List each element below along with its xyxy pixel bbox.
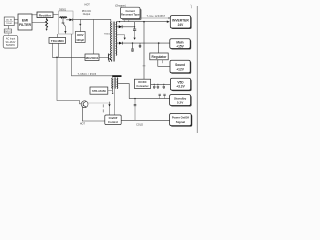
diode D6502 (boost)	[69, 19, 72, 22]
wire PFC bus	[73, 19, 111, 21]
capacitor C6 on standby rail	[159, 94, 161, 98]
svg-text:INPUT: INPUT	[5, 31, 12, 33]
wire DC/DC to V5D box	[151, 83, 171, 85]
wire TDA4863 top stub	[57, 34, 59, 38]
block EMI FILTER	[18, 14, 32, 30]
secondary winding	[115, 22, 118, 56]
wire standby rail to standby box	[129, 98, 170, 100]
svg-text:T-6503 / 6505: T-6503 / 6505	[78, 74, 97, 76]
wire Q6501 collector right	[88, 102, 111, 104]
fuse F6501	[46, 18, 48, 31]
wire STR to transformer	[108, 90, 112, 92]
transformer T6501	[104, 22, 117, 62]
wire AC inlet to EMI filter (line 1)	[14, 19, 18, 21]
block Main +15V	[170, 39, 191, 50]
wire transformer primary down	[111, 86, 113, 92]
wire 24V bus down to DC/DC	[143, 22, 145, 79]
svg-text:Sound: Sound	[175, 63, 185, 67]
arrow to bulk capacitor	[79, 19, 81, 31]
wire secondary tap with down arrow	[116, 35, 126, 40]
svg-text:TDA4863: TDA4863	[51, 39, 64, 43]
wire standby transformer to on/off control	[113, 89, 115, 115]
block Regulator	[150, 53, 168, 60]
svg-text:MCZ3001: MCZ3001	[86, 56, 99, 60]
wire EMI filter to fuse	[32, 21, 47, 23]
node 15V junction	[158, 42, 160, 44]
wire hot rail down to standby transformer	[72, 34, 114, 76]
standby transformer T6502	[112, 75, 122, 88]
wire 15V rail to Main box	[122, 42, 169, 44]
node junction	[56, 57, 58, 59]
node junction at C2	[132, 42, 133, 43]
wire control bus to MCZ3001	[52, 56, 85, 58]
svg-text:Converter: Converter	[136, 84, 148, 88]
primary winding	[110, 22, 113, 62]
wire 24V secondary rail	[116, 21, 167, 23]
PFC circuit box	[59, 11, 74, 34]
wire feedback arrow into on/off control	[108, 102, 110, 115]
svg-text:STR-A6159: STR-A6159	[92, 89, 106, 93]
wire TDA4863 leg 2	[57, 43, 59, 57]
svg-text:50/60Hz: 50/60Hz	[6, 44, 16, 47]
wire MCZ3001 to drive transistor	[99, 56, 108, 58]
svg-text:Regulator: Regulator	[152, 55, 168, 59]
svg-text:Resonant Type: Resonant Type	[121, 13, 140, 17]
wire standby secondary to rail	[118, 84, 129, 99]
diode D1 (24V/15V rectifier)	[116, 25, 135, 28]
wire resonant box leg 2	[128, 19, 130, 21]
wire base of Q6501	[57, 57, 81, 104]
block MCZ3001	[85, 54, 99, 61]
wire junction down to on/off line	[134, 99, 136, 121]
svg-text:AC IN: AC IN	[6, 18, 12, 21]
node standby primary junction	[112, 93, 113, 94]
transistor drive symbol	[108, 54, 111, 62]
block Standby 5.2V	[170, 95, 192, 107]
capacitor C4 on 5V rail	[157, 84, 159, 89]
block On/Off Control	[105, 115, 121, 125]
block AC Input 90~264V spec	[3, 36, 18, 49]
wire INPUT to AC spec box	[8, 33, 10, 36]
svg-text:+3.3V: +3.3V	[176, 85, 185, 89]
capacitor C5 on 5V rail	[163, 84, 165, 89]
connector CN6501 (AC inlet)	[4, 17, 14, 26]
svg-text:100µF: 100µF	[76, 38, 84, 42]
wire AC inlet to EMI filter (line 2)	[14, 22, 18, 24]
arrow into inverter	[167, 21, 170, 23]
block bulk capacitor 400V 100uF	[75, 32, 85, 43]
wire regulator stub	[161, 60, 163, 63]
wire AC inlet down to INPUT label	[8, 26, 10, 29]
diode D2 (15V rectifier)	[116, 42, 122, 45]
svg-text:COLD: COLD	[136, 123, 143, 126]
hot/cold dashed separator	[102, 104, 104, 112]
svg-text:FILTER: FILTER	[19, 23, 31, 27]
transistor Q6501	[81, 101, 88, 108]
block Power On/Off Signal	[170, 114, 193, 127]
capacitor C9 on on/off drop	[134, 104, 137, 105]
block Current Resonant Type	[120, 7, 141, 20]
block Rectifier	[37, 12, 53, 18]
svg-text:HOT: HOT	[85, 4, 91, 7]
svg-text:24V: 24V	[178, 23, 185, 27]
block INVERTER 24V	[170, 16, 191, 29]
svg-text:T6501: T6501	[104, 33, 111, 35]
core lines	[112, 22, 114, 62]
block INPUT	[4, 29, 12, 33]
capacitor C8 on standby rail	[163, 94, 165, 98]
transistor Q (PFC switch)	[62, 18, 64, 23]
svg-text:+15V: +15V	[176, 44, 184, 48]
svg-text:HOT: HOT	[80, 122, 86, 125]
capacitor C7 on 5V rail	[153, 84, 155, 89]
capacitor C3 on 15V rail	[139, 43, 141, 48]
capacitor C1 on 24V rail	[133, 22, 136, 40]
block V5D +3.3V	[170, 78, 191, 91]
wire resonant box leg 1	[123, 19, 125, 21]
wire TDA4863 leg 1	[51, 43, 53, 57]
block Sound +12V	[170, 60, 191, 74]
svg-text:T-line 1234567: T-line 1234567	[147, 16, 166, 18]
wire 15V down to regulator	[158, 43, 160, 53]
svg-text:Output: Output	[83, 13, 91, 16]
svg-text:Control: Control	[108, 120, 118, 124]
annotation arrow to inverter	[141, 16, 171, 19]
svg-text:EMI: EMI	[22, 18, 28, 22]
wire on/off control to power signal box	[121, 119, 169, 121]
svg-text:400V: 400V	[77, 33, 84, 37]
block STR-A6159	[90, 87, 108, 94]
block TDA4863 (PFC controller)	[49, 38, 66, 44]
inductor L6501	[60, 17, 67, 18]
wire regulator to sound box	[158, 60, 170, 67]
svg-text:T6501: T6501	[6, 23, 13, 25]
svg-text:Signal: Signal	[176, 120, 185, 124]
svg-text:Rectifier: Rectifier	[39, 13, 52, 17]
node standby junction	[134, 98, 135, 99]
wire Q6501 emitter to on/off control	[82, 107, 105, 121]
capacitor C2 on 15V rail	[131, 43, 134, 51]
svg-text:Current: Current	[126, 9, 136, 13]
svg-text:5.2V: 5.2V	[177, 101, 184, 105]
svg-text:+12V: +12V	[176, 67, 184, 71]
wire bus to MCZ3001	[93, 19, 95, 54]
block DC/DC Converter	[134, 79, 150, 88]
svg-text:INVERTER: INVERTER	[172, 18, 189, 22]
wire EMI filter to rectifier	[32, 14, 37, 16]
node tick on 24V bus	[143, 65, 146, 67]
node 24V junction	[143, 21, 145, 23]
page border right	[196, 6, 198, 133]
stray scan mark top right	[190, 5, 193, 9]
node secondary top junction	[119, 21, 120, 22]
svg-text:DC/DC: DC/DC	[138, 80, 146, 84]
wire rectifier to PFC	[53, 14, 59, 16]
